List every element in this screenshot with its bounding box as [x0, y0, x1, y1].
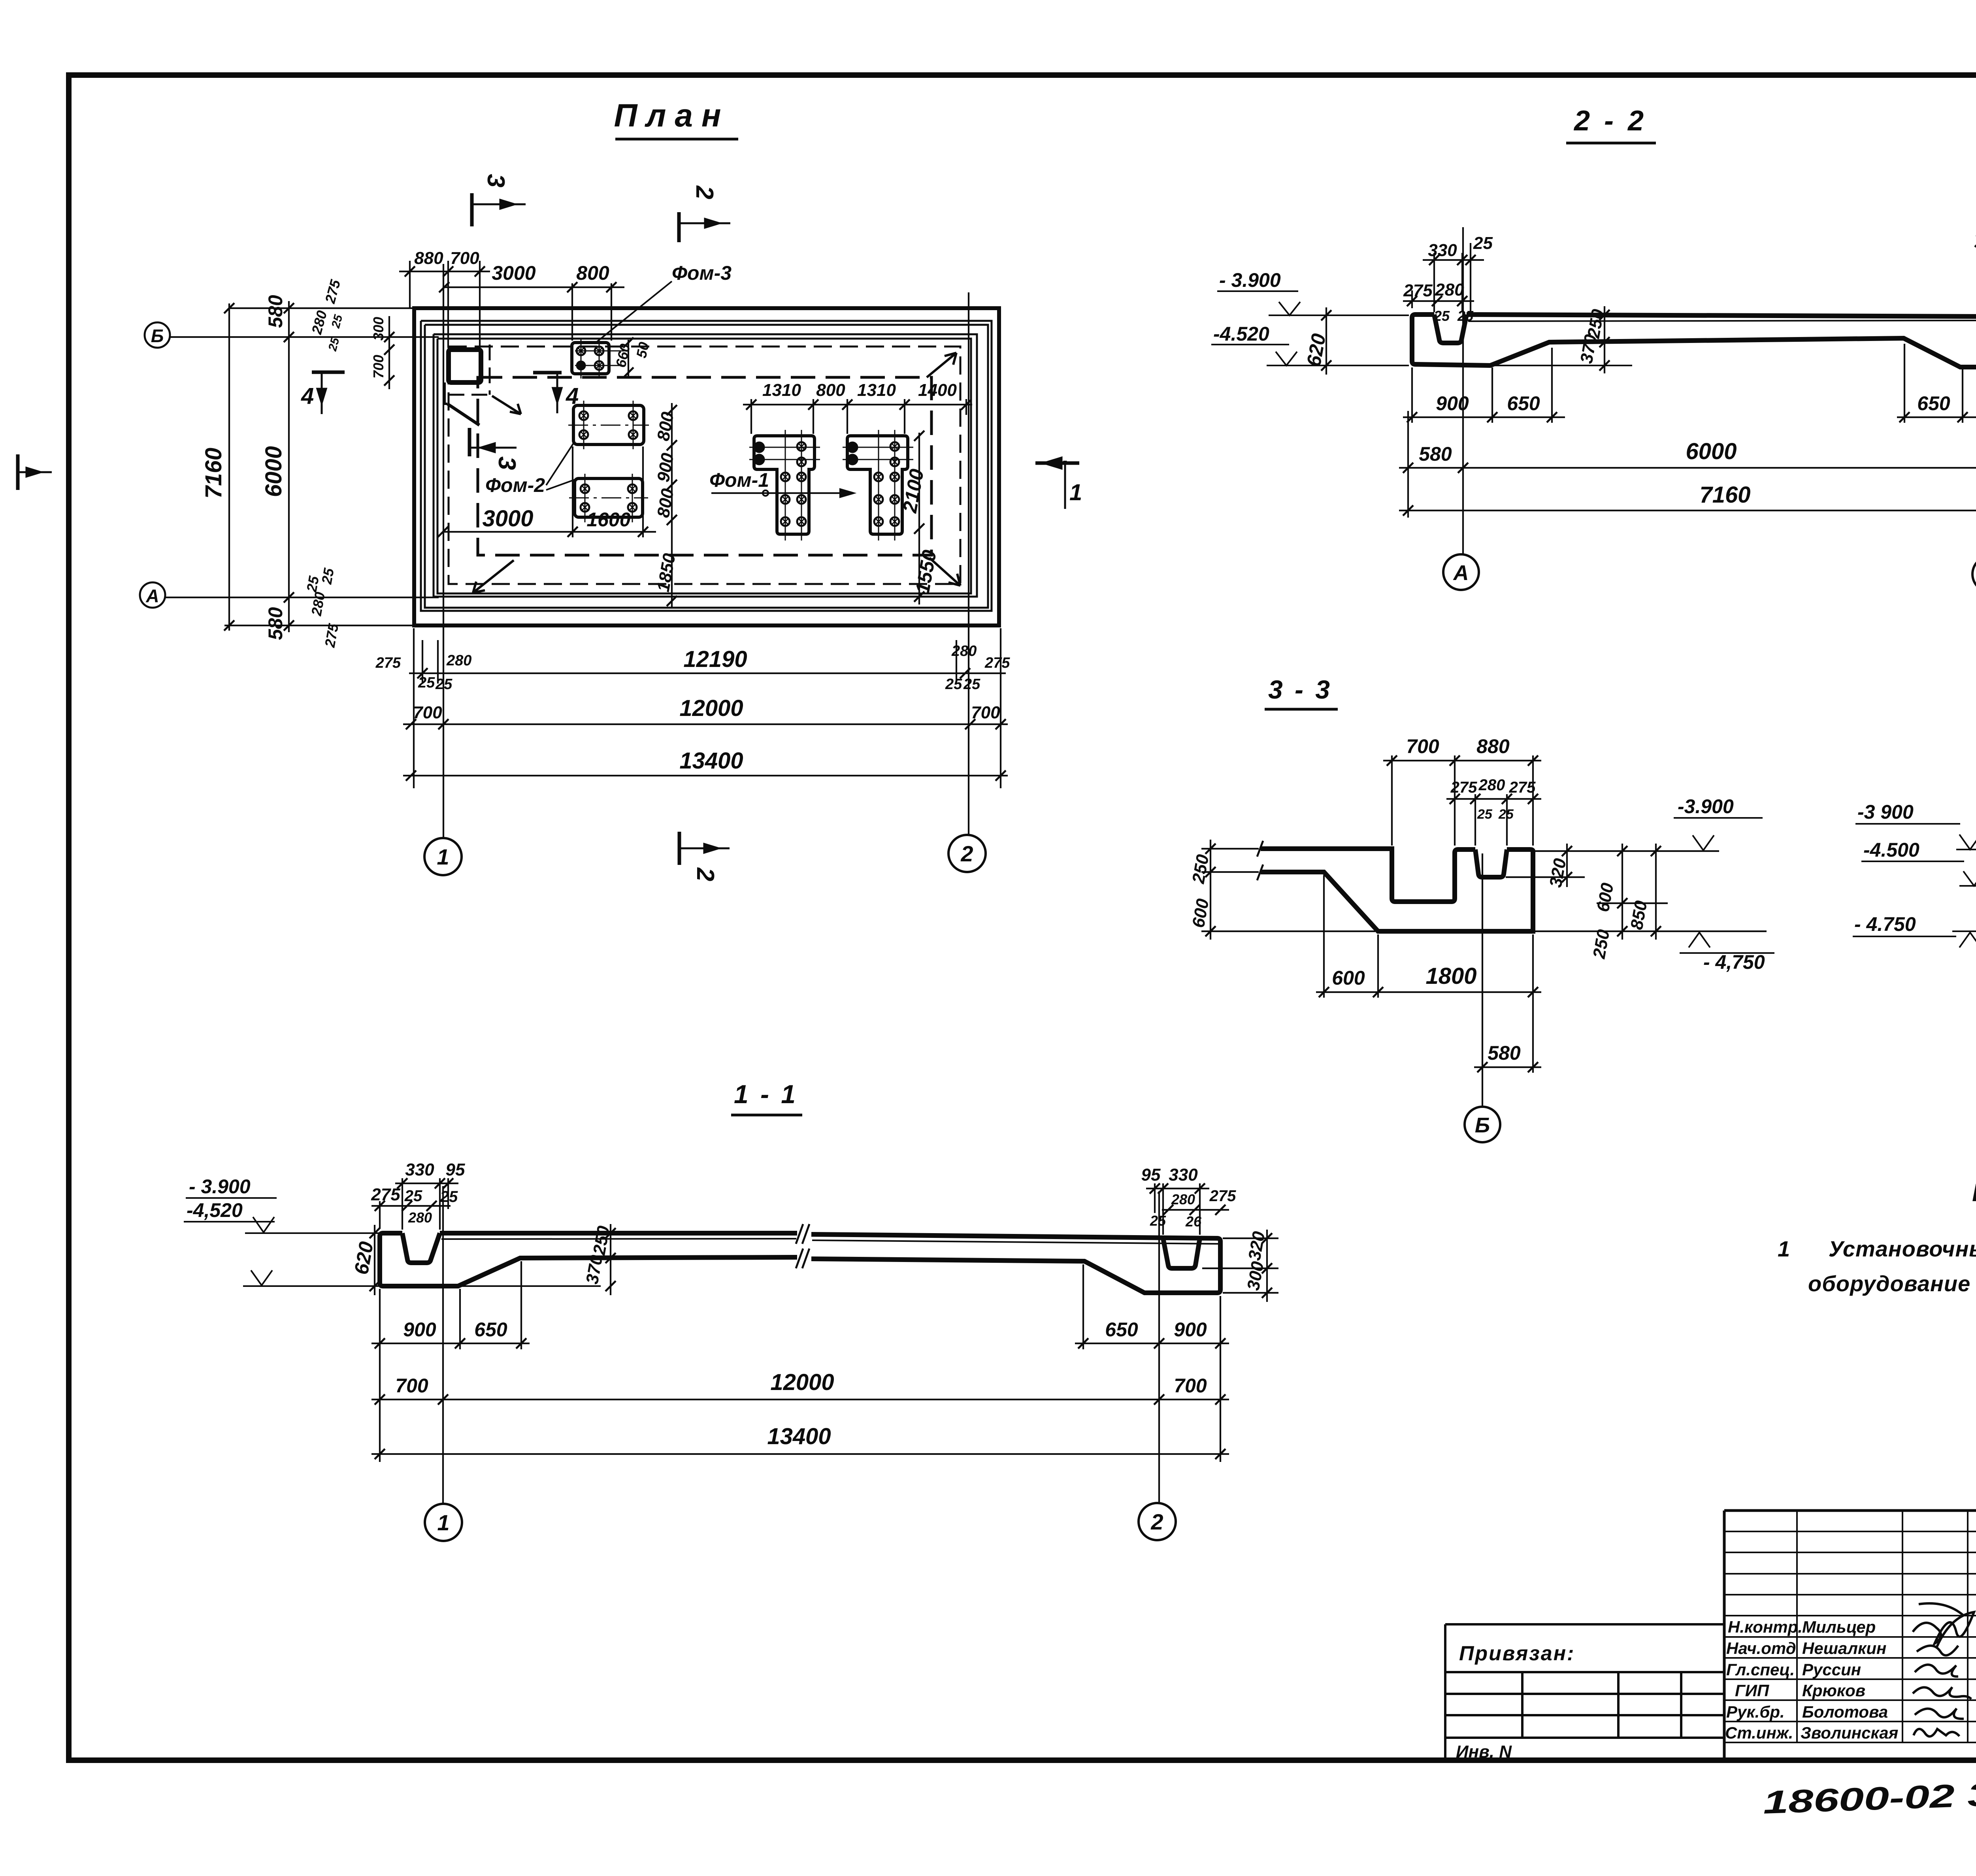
corner pit dashed diagonal arrow: [492, 396, 521, 414]
svg-text:25: 25: [1457, 308, 1474, 324]
corner pit solid diagonal: [447, 404, 479, 425]
section 1-1 profile left part: [380, 1233, 797, 1286]
axis lines s11: [443, 1186, 1159, 1504]
svg-text:Руссин: Руссин: [1802, 1660, 1861, 1679]
axis line B: [169, 336, 439, 338]
svg-text:300: 300: [370, 317, 387, 341]
svg-text:3 - 3: 3 - 3: [1268, 675, 1332, 704]
svg-text:700: 700: [450, 249, 479, 268]
top-left cluster 330 95 s11: [371, 1178, 458, 1230]
svg-text:1: 1: [437, 844, 449, 869]
elevation -4.750 s33: [1680, 932, 1774, 953]
section 2-2 slab top inner line: [1468, 320, 1976, 321]
svg-text:275: 275: [371, 1185, 400, 1204]
svg-text:1400: 1400: [918, 380, 957, 400]
plan outer wall: [414, 308, 999, 625]
svg-text:900: 900: [1174, 1318, 1207, 1341]
bottom dims 650 900 right: [1897, 344, 1976, 423]
plan wall line 3: [425, 325, 988, 608]
ground ext line 1-1: [460, 1285, 601, 1287]
plan wall line 4: [434, 334, 977, 597]
svg-text:3000: 3000: [482, 506, 533, 531]
svg-text:4: 4: [566, 383, 579, 409]
svg-text:-4.520: -4.520: [1213, 323, 1269, 345]
section mark 2 bottom: [679, 832, 730, 865]
svg-text:Зволинская: Зволинская: [1801, 1723, 1898, 1742]
svg-text:1310: 1310: [762, 380, 801, 400]
mid dims 250 370 s11: [605, 1224, 616, 1295]
svg-text:-3.900: -3.900: [1678, 795, 1734, 817]
handwritten archive number: [1762, 1776, 1976, 1821]
dim 6000 vertical: [288, 301, 290, 632]
axis circle A s22: [1443, 554, 1479, 590]
section 1-1 profile right part: [811, 1234, 1220, 1293]
svg-text:275: 275: [1403, 281, 1433, 300]
axis circle A: [140, 582, 165, 608]
right dims 320 600 850 250 s33: [1506, 844, 1767, 940]
section mark 3 inner: [469, 428, 517, 456]
svg-text:700: 700: [1174, 1375, 1207, 1397]
svg-text:ГИП: ГИП: [1735, 1681, 1769, 1700]
svg-text:1 - 1: 1 - 1: [734, 1079, 798, 1109]
svg-text:Б: Б: [151, 326, 164, 346]
bottom dims 650 900 right s11: [1075, 1264, 1229, 1462]
svg-text:25: 25: [418, 674, 435, 691]
foundation block FM-3: [572, 337, 634, 379]
right dims 320 300 s11: [1202, 1230, 1278, 1302]
svg-text:3000: 3000: [492, 262, 535, 284]
svg-text:580: 580: [1419, 443, 1452, 465]
svg-text:Гл.спец.: Гл.спец.: [1726, 1660, 1795, 1679]
plan dashed slab edge outer: [449, 347, 960, 584]
top-right cluster 95 330 s11: [1146, 1183, 1229, 1235]
svg-text:700: 700: [413, 703, 442, 722]
svg-text:Привязан:: Привязан:: [1459, 1642, 1575, 1665]
svg-text:3: 3: [493, 456, 520, 470]
dim 700 12000 700 s11: [371, 1394, 1229, 1405]
break mark 1-1: [796, 1224, 809, 1268]
svg-text:1 Установочные чертежи фунда: 1 Установочные чертежи фундаментов под: [1778, 1236, 1976, 1261]
elevation -3.900 left: [1217, 291, 1409, 315]
signature squiggles: [1913, 1603, 1974, 1737]
svg-text:280: 280: [408, 1209, 432, 1226]
axis line 1 vertical: [443, 264, 444, 838]
svg-text:25: 25: [1498, 807, 1514, 822]
svg-text:900: 900: [403, 1318, 436, 1341]
svg-text:6000: 6000: [261, 446, 287, 497]
svg-text:-4,520: -4,520: [187, 1199, 243, 1221]
svg-text:95: 95: [446, 1160, 465, 1179]
top dim 3000 800: [444, 286, 624, 288]
corner diagonal arrow TR: [927, 353, 956, 377]
corner pit edge: [445, 382, 447, 404]
svg-text:700: 700: [971, 703, 1000, 722]
plan wall line 2: [421, 321, 992, 611]
dim 660 50 for FM-3: [628, 340, 629, 377]
elevation -4.500 s44: [1861, 861, 1976, 886]
svg-text:Нешалкин: Нешалкин: [1802, 1639, 1886, 1658]
corner pit dashed vertical: [489, 345, 491, 395]
plan dashed slab edge inner: [478, 377, 931, 555]
bottom dim 700 12000 700: [403, 719, 1008, 729]
elevation -3.900 s33: [1674, 818, 1763, 850]
svg-text:Фом-1: Фом-1: [709, 469, 769, 491]
svg-text:280: 280: [1478, 776, 1505, 794]
svg-text:880: 880: [414, 249, 443, 268]
dim 580 6000 580: [1399, 463, 1976, 473]
svg-text:2: 2: [960, 841, 973, 866]
foundation block FM-2 lower: [569, 474, 648, 522]
svg-text:12190: 12190: [683, 646, 747, 672]
svg-text:26: 26: [1185, 1213, 1202, 1230]
note line 2: [1808, 1271, 1976, 1296]
corner diagonal arrow BR: [930, 558, 960, 586]
svg-text:- 3.900: - 3.900: [189, 1175, 251, 1198]
svg-text:2: 2: [691, 185, 718, 199]
svg-text:25: 25: [963, 676, 980, 693]
axis circle 2 plan: [948, 835, 986, 872]
dim 250 370 mid: [1599, 306, 1610, 373]
svg-text:280: 280: [446, 652, 471, 669]
dim 620 s11: [370, 1225, 380, 1295]
svg-text:900: 900: [1436, 392, 1469, 414]
dims 275 280 275 s33: [1446, 794, 1541, 846]
svg-text:6000: 6000: [1686, 439, 1737, 464]
svg-text:25: 25: [435, 676, 453, 693]
axis circle B: [145, 322, 170, 348]
svg-text:275: 275: [1509, 779, 1536, 796]
axis line 2 vertical: [968, 292, 969, 835]
section 2-2 profile: [1412, 315, 1976, 367]
svg-text:Нач.отд: Нач.отд: [1726, 1639, 1796, 1658]
svg-text:280: 280: [1435, 280, 1464, 299]
svg-text:25: 25: [1150, 1213, 1166, 1229]
svg-text:800: 800: [576, 262, 609, 284]
section mark 1 right: [1035, 459, 1079, 509]
section mark 4 outer: [312, 372, 345, 414]
svg-text:275: 275: [1450, 779, 1477, 796]
leaders FM-2: [546, 443, 575, 490]
leader FM-3: [594, 281, 672, 344]
dim 7160 vertical: [228, 303, 230, 631]
svg-text:25: 25: [1433, 308, 1450, 324]
svg-text:580: 580: [264, 607, 287, 640]
top-left dim cluster 2-2: [1403, 243, 1484, 312]
dim col 800 900 800 1850: [667, 403, 677, 608]
svg-text:650: 650: [1105, 1318, 1138, 1341]
svg-text:2 - 2: 2 - 2: [1573, 105, 1647, 137]
section 3-3 title: [1268, 675, 1332, 704]
svg-text:2: 2: [1150, 1509, 1163, 1534]
section 3-3 profile: [1261, 849, 1533, 931]
svg-text:700: 700: [370, 355, 387, 379]
elevation -4.520 left: [1211, 345, 1409, 365]
dim 2100 1550: [914, 431, 924, 605]
dim 1310 800 1310 1400: [743, 399, 972, 434]
svg-text:7160: 7160: [1699, 482, 1750, 508]
section mark 1 left: [18, 454, 52, 490]
svg-text:280: 280: [951, 643, 977, 659]
svg-text:А: А: [145, 586, 159, 606]
dim 580 s33: [1474, 853, 1541, 1107]
svg-text:А: А: [1453, 561, 1469, 585]
axis circle B s22: [1972, 556, 1976, 592]
svg-text:600: 600: [1332, 967, 1365, 989]
svg-text:1800: 1800: [1425, 963, 1476, 989]
svg-text:1600: 1600: [586, 509, 630, 531]
svg-text:13400: 13400: [767, 1424, 831, 1449]
foundation block FM-1 right (T-shape): [843, 430, 913, 541]
axis circle B s33: [1465, 1107, 1500, 1142]
svg-text:1: 1: [437, 1510, 449, 1535]
svg-text:580: 580: [264, 295, 287, 328]
svg-text:оборудование см. лист 38.: оборудование см. лист 38.: [1808, 1271, 1976, 1296]
section mark 3 top: [472, 193, 526, 226]
bottom dims 600 1800 s33: [1316, 875, 1541, 1073]
notes heading: [1972, 1178, 1976, 1207]
svg-text:25: 25: [1477, 807, 1493, 822]
svg-text:- 3.900: - 3.900: [1219, 269, 1281, 291]
section 2-2 ground ext line: [1494, 365, 1632, 366]
label FM-1: [709, 469, 769, 491]
svg-text:- 4,750: - 4,750: [1703, 951, 1765, 973]
top dim 880 700: [399, 271, 490, 272]
elevation -4.750 s44: [1853, 931, 1976, 947]
privyazan table: [1445, 1624, 1724, 1760]
axis lines 2-2: [1408, 221, 1976, 557]
svg-text:330: 330: [1428, 241, 1457, 260]
svg-text:-4.500: -4.500: [1863, 839, 1919, 861]
svg-text:275: 275: [1209, 1187, 1236, 1205]
svg-text:Н.контр.: Н.контр.: [1728, 1618, 1803, 1636]
svg-text:95: 95: [1141, 1165, 1161, 1185]
svg-text:2: 2: [692, 867, 719, 881]
svg-text:-3 900: -3 900: [1857, 801, 1914, 823]
svg-text:275: 275: [375, 655, 401, 671]
axis circle 1 s11: [425, 1504, 462, 1541]
elevation -4.520 s11: [184, 1222, 379, 1286]
svg-text:330: 330: [1169, 1165, 1198, 1185]
svg-text:700: 700: [1406, 735, 1439, 757]
svg-text:280: 280: [1171, 1191, 1195, 1207]
bottom dims 900 650 left: [1403, 348, 1565, 423]
svg-text:700: 700: [395, 1375, 428, 1397]
svg-text:7160: 7160: [201, 448, 226, 499]
svg-text:275: 275: [984, 655, 1010, 671]
svg-text:50: 50: [633, 341, 652, 360]
svg-text:Б: Б: [1475, 1113, 1490, 1137]
plan title: [614, 98, 730, 134]
section 1-1 slab top inner line: [441, 1239, 796, 1239]
title block signature table: [1724, 1511, 1976, 1760]
svg-text:580: 580: [1488, 1042, 1521, 1064]
svg-text:650: 650: [474, 1318, 507, 1341]
top dims 700 880 s33: [1383, 755, 1541, 846]
svg-text:Ст.инж.: Ст.инж.: [1725, 1723, 1793, 1742]
axis circle 1 plan: [424, 838, 462, 875]
svg-text:План: План: [614, 98, 730, 134]
bottom dim 12190: [409, 628, 1006, 788]
svg-text:1: 1: [1069, 480, 1082, 505]
foundation block FM-1 left (T-shape): [749, 430, 820, 541]
dim 13400 s11: [371, 1449, 1229, 1459]
svg-text:Фом-2: Фом-2: [485, 474, 545, 496]
svg-text:13400: 13400: [679, 748, 743, 774]
signature names: [1725, 1618, 1898, 1742]
svg-text:Крюков: Крюков: [1802, 1681, 1865, 1700]
elevation -3 900 s44: [1855, 824, 1976, 849]
svg-text:Примечание:: Примечание:: [1972, 1178, 1976, 1207]
elevation -3.900 s11: [186, 1198, 379, 1233]
svg-text:800: 800: [816, 380, 845, 400]
axis line A: [164, 597, 439, 598]
svg-text:880: 880: [1476, 735, 1510, 757]
label FM-2: [485, 474, 545, 496]
section mark 4 inner: [533, 373, 562, 413]
section 2-2 title: [1573, 105, 1647, 137]
svg-text:Инв. N: Инв. N: [1456, 1742, 1512, 1761]
section mark 2 top: [679, 212, 730, 242]
svg-text:25: 25: [404, 1187, 422, 1205]
axis circle 2 s11: [1139, 1503, 1176, 1540]
top-right dim cluster 2-2: [1975, 229, 1976, 314]
leader FM-1 arrow: [711, 489, 854, 497]
svg-text:Фом-3: Фом-3: [672, 262, 732, 284]
svg-text:Рук.бр.: Рук.бр.: [1726, 1703, 1785, 1721]
svg-text:330: 330: [405, 1160, 434, 1179]
dim col 300 700: [388, 316, 390, 389]
svg-text:Болотова: Болотова: [1802, 1703, 1888, 1721]
corner diagonal arrow BL: [473, 560, 514, 593]
svg-text:25: 25: [945, 676, 962, 693]
bottom dim 13400: [403, 770, 1008, 781]
svg-text:12000: 12000: [770, 1369, 834, 1395]
corner pit dashed horizontal: [449, 394, 490, 396]
dim 7160 s22: [1399, 505, 1976, 516]
plan wall line 5: [437, 339, 971, 593]
bottom dims 900 650 left s11: [371, 1261, 530, 1462]
left dims 250 600 s33: [1201, 840, 1375, 940]
dim 3000 1600: [438, 446, 656, 537]
svg-text:25: 25: [1473, 234, 1493, 253]
dim 620: [1321, 307, 1331, 375]
svg-text:4: 4: [301, 383, 314, 409]
svg-text:650: 650: [1507, 392, 1540, 414]
svg-text:Мильцер: Мильцер: [1802, 1618, 1876, 1636]
section 1-1 title: [734, 1079, 798, 1109]
svg-text:1310: 1310: [857, 380, 896, 400]
svg-text:12000: 12000: [679, 695, 743, 721]
svg-text:- 4.750: - 4.750: [1854, 913, 1916, 935]
corner hatch square: [449, 350, 481, 382]
svg-text:3: 3: [482, 174, 509, 187]
svg-text:25: 25: [318, 567, 337, 586]
foundation block FM-2 upper: [568, 401, 649, 449]
break mark 3-3: [1257, 841, 1263, 880]
note line 1: [1778, 1236, 1976, 1261]
svg-text:650: 650: [1917, 392, 1950, 414]
